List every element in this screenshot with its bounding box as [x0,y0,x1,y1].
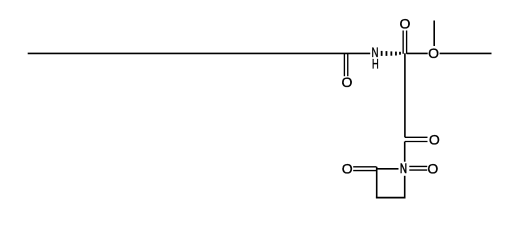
svg-text:O: O [429,131,440,147]
bond ring right side C4 to N [404,176,406,198]
N=O double bond to right oxide O (horizontal pair) [409,166,427,170]
bond ketone C down to ring N [404,142,406,162]
bond ring left side C2 to C3 [376,167,378,198]
svg-text:O: O [428,45,439,61]
hashed wedge bond N to stereocenter [382,51,400,56]
stereocenter C=O double bond (vertical pair, up) [403,31,406,54]
wire main chain bond (long horizontal) [28,52,371,54]
svg-text:O: O [341,74,352,90]
bond ester O to right chain [440,52,492,54]
bond methyl on ester O (vertical) [433,21,435,47]
svg-text:N: N [400,160,407,176]
amide C=O double bond (vertical pair) [344,54,347,76]
ketone C=O double bond (horizontal pair) [405,137,428,141]
bond stereocenter to ester O [407,52,428,54]
wire long vertical bond stereocenter down to ketone C [404,53,406,137]
bond ring top side C2 to N [376,168,399,170]
svg-text:O: O [342,160,353,176]
bond ring bottom side C3 to C4 [376,197,406,199]
svg-text:O: O [400,16,411,32]
svg-text:O: O [427,160,438,176]
svg-text:H: H [372,56,379,72]
ring C2=O double bond to left O (horizontal pair) [353,167,376,171]
